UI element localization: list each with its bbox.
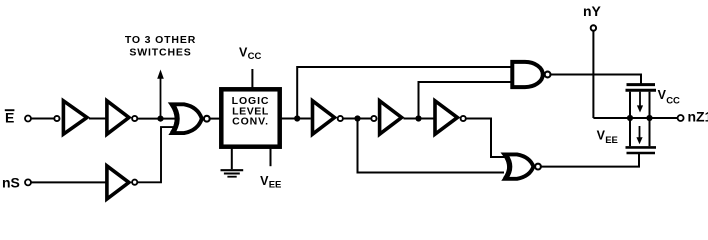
junction dot <box>354 115 360 121</box>
ground <box>221 170 244 177</box>
transistor Q1 (top pass FET) <box>626 85 657 118</box>
NAND gate G3 <box>512 62 550 87</box>
NOR gate G1 <box>172 104 210 133</box>
wire nY down to switch rail <box>592 31 594 118</box>
wire <box>297 118 311 120</box>
inverter U7 <box>435 101 466 134</box>
svg-text:CONV.: CONV. <box>232 116 269 128</box>
transistor Q2 (bottom pass FET) <box>626 118 657 153</box>
wire to NAND lower input <box>419 82 512 119</box>
svg-text:EE: EE <box>605 135 618 146</box>
junction dot <box>294 115 300 121</box>
node E-bar label <box>5 109 15 125</box>
inverter U1 <box>54 101 87 134</box>
wire <box>343 118 371 120</box>
svg-text:SWITCHES: SWITCHES <box>129 46 191 58</box>
power VEE label right <box>597 128 618 146</box>
wire NAND output to top FET gate <box>551 75 642 85</box>
junction dot <box>627 115 633 121</box>
power VCC label <box>239 46 261 62</box>
wire to NOR G2 upper input <box>466 119 506 158</box>
wire <box>31 118 54 120</box>
svg-text:nY: nY <box>583 3 602 19</box>
wire VEE pin <box>270 147 272 166</box>
wire <box>138 127 176 182</box>
inverter U6 <box>371 101 401 134</box>
wire <box>404 118 434 120</box>
svg-text:nS: nS <box>2 175 20 191</box>
svg-text:CC: CC <box>666 96 680 107</box>
terminal E-bar <box>25 116 31 122</box>
inverter U5 <box>313 101 343 134</box>
wire <box>210 118 220 120</box>
wire <box>281 118 295 120</box>
terminal nZ <box>678 115 684 121</box>
svg-text:CC: CC <box>248 51 262 62</box>
svg-text:E: E <box>5 109 14 125</box>
wire to other switches with arrow <box>157 70 164 119</box>
junction dot <box>415 115 421 121</box>
junction dot <box>157 116 163 122</box>
label TO 3 OTHER SWITCHES <box>125 34 196 59</box>
NOR gate G2 <box>504 154 540 179</box>
terminal nS <box>25 179 31 185</box>
wire switch rail <box>593 117 677 119</box>
inverter U3 <box>107 166 137 199</box>
power VCC label right <box>658 88 680 106</box>
wire <box>89 118 106 120</box>
svg-text:TO 3 OTHER: TO 3 OTHER <box>125 34 196 46</box>
wire to NAND upper input <box>297 67 511 119</box>
wire ground pin <box>231 147 233 169</box>
logic level converter box U4 <box>221 89 279 146</box>
inverter U2 <box>107 101 137 134</box>
svg-text:EE: EE <box>269 180 282 191</box>
wire NOR output to bottom FET gate <box>541 153 639 167</box>
power VEE label <box>260 174 281 191</box>
wire to NOR G2 lower input <box>358 119 505 173</box>
wire <box>138 118 178 120</box>
junction dot <box>646 115 652 121</box>
svg-text:nZ1: nZ1 <box>688 108 708 124</box>
wire VCC pin <box>251 69 253 89</box>
terminal nY <box>591 25 596 30</box>
wire <box>31 181 106 183</box>
